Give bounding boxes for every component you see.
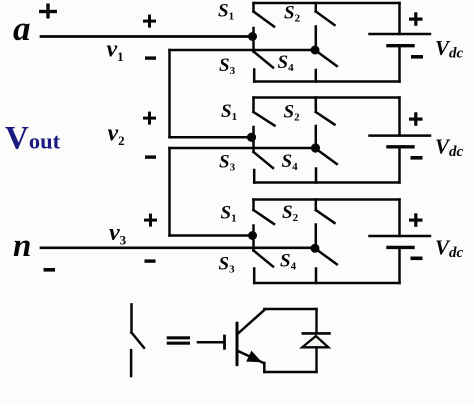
wire cell2 input (170, 136, 252, 139)
svg-text:S1: S1 (221, 101, 237, 123)
wire n (neutral terminal to cell3 right node) (41, 246, 315, 249)
wire cell3 top rail (254, 198, 400, 201)
switch S4 cell1 (316, 53, 337, 82)
IGBT Q gate lead (198, 341, 225, 344)
battery Vdc cell2 positive lead (398, 98, 401, 136)
wire legend loop left lower (263, 363, 266, 372)
plus sign v2 (143, 112, 156, 125)
svg-text:S3: S3 (219, 55, 236, 77)
battery Vdc cell3 short plate (388, 246, 413, 249)
svg-text:S2: S2 (284, 3, 301, 25)
equals sign (167, 336, 190, 344)
plus sign battery cell1 (409, 12, 423, 25)
svg-text:Vdc: Vdc (435, 36, 464, 62)
battery Vdc cell1 long plate (370, 33, 431, 36)
battery Vdc cell3 positive lead (398, 200, 401, 237)
node cell2 right (311, 143, 320, 152)
node cell1 left (terminal a junction) (248, 32, 257, 41)
svg-text:Vout: Vout (5, 121, 61, 157)
battery Vdc cell1 positive lead (398, 3, 401, 34)
svg-text:S1: S1 (221, 203, 237, 225)
plus sign battery cell2 (409, 112, 423, 126)
minus sign v1 (145, 56, 156, 59)
node cell3 left (248, 231, 257, 240)
IGBT Q emitter arrow (246, 351, 262, 363)
svg-text:S4: S4 (278, 52, 295, 74)
plus sign battery cell3 (409, 213, 423, 227)
battery Vdc cell1 negative lead (398, 46, 401, 82)
IGBT Q emitter lead (238, 351, 264, 363)
wire cell2 output (right node to bus) (170, 147, 316, 150)
node cell1 right (311, 46, 320, 55)
node cell2 left (247, 133, 256, 142)
wire cell1 output (right node to bus) (170, 49, 316, 52)
wire legend loop top (264, 308, 316, 310)
switch S1 cell2 (254, 98, 275, 138)
diode D cathode bar (303, 332, 330, 335)
IGBT Q body bar (236, 323, 239, 364)
minus sign battery cell3 (411, 257, 423, 261)
battery Vdc cell2 short plate (388, 145, 413, 148)
wire cell2 top rail (254, 96, 400, 99)
svg-text:n: n (13, 228, 31, 264)
wire bus vertical cell2-cell3 (168, 148, 171, 236)
svg-text:S2: S2 (284, 102, 301, 124)
battery Vdc cell2 long plate (370, 134, 431, 137)
svg-text:S4: S4 (282, 151, 299, 173)
switch S3 cell3 (254, 240, 274, 284)
switch S2 cell2 (316, 98, 335, 149)
svg-text:S2: S2 (282, 202, 299, 224)
diode D triangle (302, 336, 328, 347)
wire cell1 bottom rail (254, 80, 399, 83)
svg-text:a: a (13, 9, 31, 48)
wire cell1 top rail (254, 2, 400, 5)
minus sign at terminal n (44, 268, 56, 272)
node cell3 right (terminal n junction) (311, 244, 320, 253)
battery Vdc cell3 negative lead (398, 247, 401, 283)
svg-text:S3: S3 (219, 254, 236, 276)
switch S4 cell3 (316, 251, 337, 283)
svg-text:v1: v1 (107, 37, 124, 65)
svg-text:v3: v3 (109, 220, 127, 248)
svg-text:v2: v2 (108, 121, 125, 149)
svg-text:Vdc: Vdc (435, 135, 464, 161)
switch S2 cell1 (316, 3, 335, 50)
wire bus vertical cell1-cell2 (168, 50, 171, 137)
plus sign at terminal a (39, 4, 57, 19)
switch S2 cell3 (316, 200, 335, 249)
switch S3 cell2 (254, 141, 274, 183)
battery Vdc cell1 short plate (388, 44, 413, 47)
battery Vdc cell2 negative lead (398, 147, 401, 183)
minus sign v3 (145, 259, 156, 262)
wire cell3 input (170, 234, 253, 237)
wire cell2 bottom rail (254, 181, 399, 184)
wire legend loop bottom (264, 371, 316, 373)
legend switch symbol (131, 304, 144, 376)
wire a (phase terminal to cell1 left node) (41, 35, 253, 38)
plus sign v3 (144, 214, 157, 227)
minus sign battery cell1 (411, 55, 423, 59)
plus sign v1 (143, 15, 156, 28)
wire legend loop right upper (315, 309, 317, 333)
IGBT Q gate plate (223, 336, 226, 348)
wire cell3 bottom rail (254, 282, 399, 285)
svg-text:S3: S3 (219, 152, 236, 174)
switch S1 cell3 (254, 200, 275, 236)
switch S3 cell1 (254, 41, 274, 82)
svg-text:S4: S4 (280, 251, 297, 273)
wire legend loop right lower (315, 347, 317, 372)
svg-text:S1: S1 (218, 1, 234, 23)
IGBT Q collector lead (238, 310, 264, 334)
svg-text:Vdc: Vdc (435, 236, 464, 262)
battery Vdc cell3 long plate (370, 235, 431, 238)
switch S4 cell2 (316, 151, 337, 183)
switch S1 cell1 (254, 3, 275, 37)
minus sign battery cell2 (411, 156, 423, 160)
minus sign v2 (145, 155, 156, 158)
